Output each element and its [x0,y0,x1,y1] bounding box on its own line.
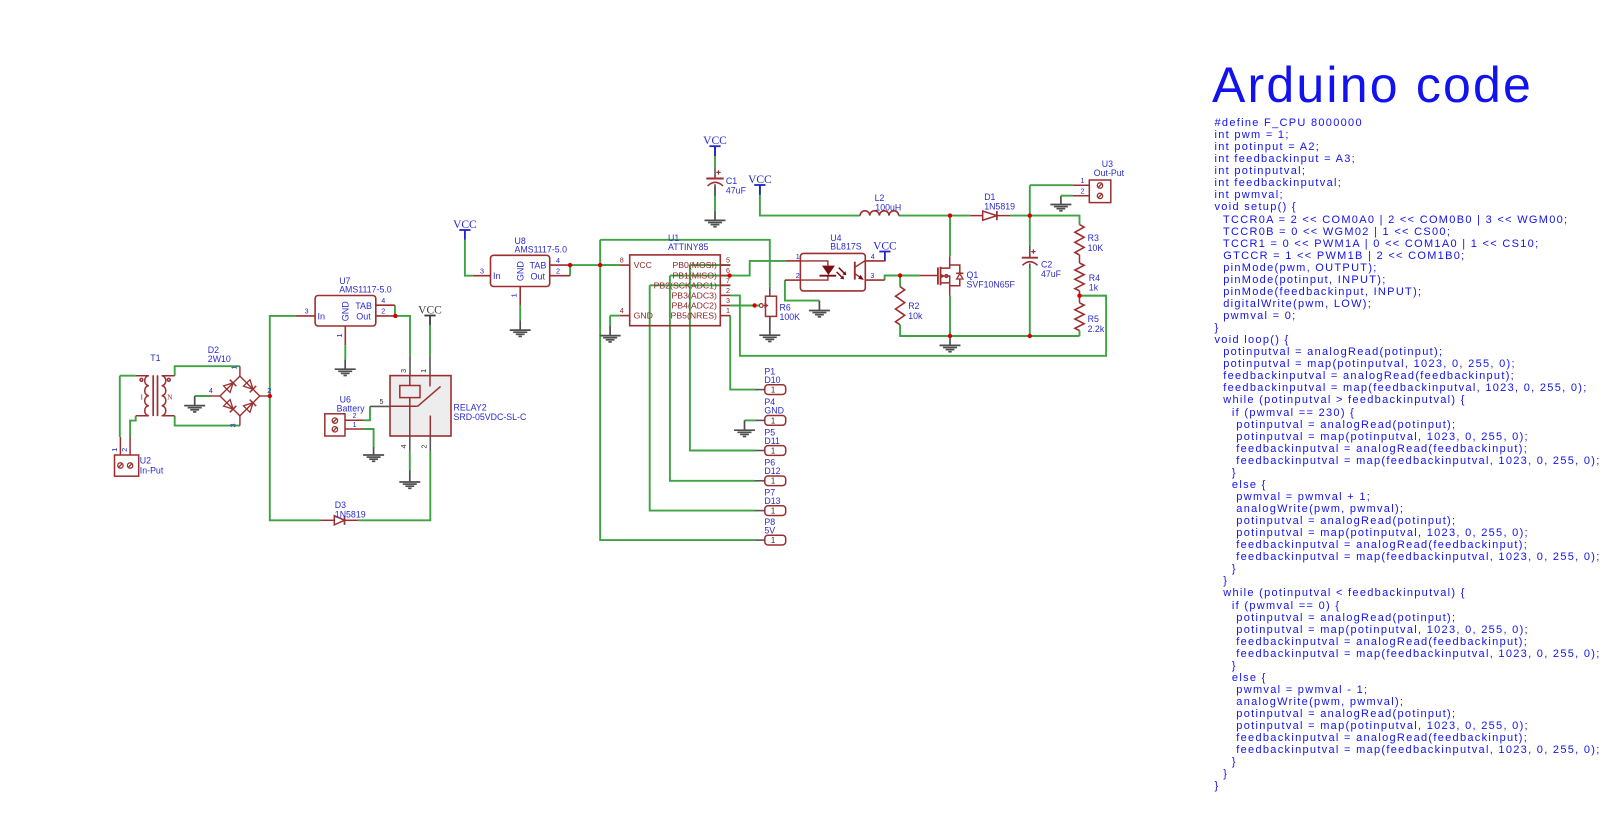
wire to U3 pin1 [1030,184,1073,186]
svg-text:PB1(MISO): PB1(MISO) [672,271,717,281]
svg-text:In: In [318,311,326,321]
svg-text:1: 1 [771,416,775,425]
svg-text:3: 3 [399,369,408,373]
ground at bridge pin4 [184,396,205,412]
ground bottom rail [940,338,961,352]
svg-text:D11: D11 [764,436,780,446]
svg-text:VCC: VCC [873,240,897,252]
wire U8 TAB to U1 VCC node [570,264,620,266]
svg-text:2: 2 [381,307,385,316]
svg-text:1: 1 [419,369,428,373]
junction R4/R5 divider [1077,294,1081,298]
junction D1/C2/U3 [1028,213,1032,217]
svg-text:VCC: VCC [703,135,727,147]
wire U3 pin2 stub [1061,195,1073,197]
wire 5V node to U1 pin8 [600,264,620,266]
junction bridge output [268,394,272,398]
wire VCC to L2 [760,185,860,216]
svg-text:2: 2 [796,271,800,280]
svg-text:100K: 100K [780,312,801,322]
transistor Q1 SVF10N65F [920,256,964,295]
wire P4 to ground [745,419,755,421]
svg-text:100uH: 100uH [875,202,901,212]
header P7 D13 [755,510,765,512]
wire PB1 down to P6 [670,276,755,481]
svg-text:2: 2 [120,448,129,452]
svg-text:VCC: VCC [453,219,477,231]
svg-text:5: 5 [726,256,730,265]
resistor R3 10K [1075,225,1084,255]
svg-text:1: 1 [771,477,775,486]
bridge diode BL [224,400,234,410]
svg-text:3: 3 [229,423,238,427]
ground C1 [705,211,726,227]
svg-text:In: In [493,271,501,281]
svg-text:2: 2 [1081,187,1085,196]
wire U8 TAB to Out [569,265,571,276]
svg-text:4: 4 [556,256,560,265]
svg-text:AMS1117-5.0: AMS1117-5.0 [339,285,392,295]
svg-text:R6: R6 [780,303,791,313]
svg-text:1k: 1k [1089,283,1099,293]
ground U1 GND [600,326,621,342]
wire 5V net down to P8 [600,240,755,540]
relay coil [390,376,441,436]
svg-text:1: 1 [771,507,775,516]
svg-text:TAB: TAB [530,261,547,271]
wire U3 pin2 down [1060,195,1062,198]
svg-text:R5: R5 [1088,314,1099,324]
svg-text:D12: D12 [764,466,780,476]
wire T1 secondary top to bridge pin1 [175,366,240,376]
diode D3 1N5819 [334,516,344,525]
svg-text:1: 1 [796,252,800,261]
svg-text:1: 1 [1081,176,1085,185]
wire VCC to U8 In [465,240,473,276]
wire relay pin4 to ground [409,451,411,470]
code listing [1215,117,1601,793]
U4 LED [800,261,828,280]
power symbol VCC (U8 input) [459,230,470,240]
svg-text:2: 2 [556,266,560,275]
wire PB1 through symbol [670,275,730,277]
connector U3 Out-Put [1073,180,1111,203]
wire PB5 down to P1 [730,316,755,390]
svg-text:2: 2 [726,286,730,295]
svg-text:D10: D10 [764,375,780,385]
svg-text:C2: C2 [1041,260,1052,270]
svg-text:1: 1 [726,306,730,315]
ground R6 [759,316,780,341]
bridge diode TR [244,380,254,390]
ground U3 pin2 [1050,197,1071,211]
wire VCC to relay pin1 [429,325,431,355]
wire U7 TAB to Out [394,305,396,316]
svg-text:Q1: Q1 [967,270,979,280]
wire PB2 down to P7 [650,285,755,510]
U4 light arrows [839,268,844,273]
ground U7 GND [335,359,356,375]
wire D1 cathode to R3 top [1010,216,1079,225]
wire gate node to R2 [899,276,901,287]
inductor L2 100uH [860,211,899,216]
svg-text:N: N [167,393,173,402]
junction 5V at U1 pin8 [598,263,602,267]
wire D1 node up/down to C2 top [1029,185,1031,246]
svg-text:2W10: 2W10 [208,354,231,364]
transformer T1 [136,375,175,416]
capacitor C2 47uF [1029,246,1031,268]
junction bottom rail C2 [1028,334,1032,338]
svg-text:1: 1 [771,446,775,455]
wire VCC to C1 plus [714,147,716,168]
svg-text:D1: D1 [984,192,995,202]
power symbol VCC (U4 pin4) [879,252,890,262]
wire PB0 through symbol [690,264,731,266]
svg-text:GND: GND [341,301,351,322]
svg-text:4: 4 [620,306,624,315]
svg-text:1: 1 [353,420,357,429]
regulator U7 AMS1117-5.0 [296,296,395,346]
power symbol VCC (C1) [709,146,720,156]
svg-text:VCC: VCC [634,260,652,270]
svg-text:U2: U2 [140,455,151,465]
svg-text:BL817S: BL817S [830,242,861,252]
wire PB4 to R6 wiper [730,305,759,307]
wire R2 bottom to rail [900,325,950,336]
wire 5V top rail to R6 [600,240,770,287]
wire C1 minus to ground [714,187,716,211]
svg-text:3: 3 [870,271,874,280]
header P6 D12 [755,480,765,482]
svg-text:1: 1 [229,366,238,370]
wire R5 bottom to rail [1079,331,1081,336]
svg-text:1: 1 [771,536,775,545]
svg-text:Out: Out [356,312,371,322]
svg-text:Battery: Battery [337,404,365,414]
svg-text:4: 4 [399,445,408,449]
wire Q1 source to rail [949,296,951,337]
svg-text:1N5819: 1N5819 [335,509,366,519]
wire bottom rail [950,335,1080,337]
title Arduino code [1212,56,1533,114]
svg-text:R4: R4 [1089,273,1100,283]
svg-text:PB5(NRES): PB5(NRES) [671,311,717,321]
svg-text:I: I [141,393,144,402]
wire U6 pin1 to ground [364,429,374,447]
resistor R2 10k [896,287,905,325]
power symbol VCC (L2 input) [754,185,765,195]
wire L2 to D1 anode [899,215,971,217]
wire U1 GND pin [610,315,620,317]
ground U6 pin1 [363,447,384,461]
relay RELAY2 SRD-05VDC-SL-C [390,376,451,436]
diode D1 1N5819 [983,211,997,220]
svg-text:1N5819: 1N5819 [984,202,1015,212]
svg-text:GND: GND [764,406,784,416]
svg-text:1: 1 [771,386,775,395]
wire PB3 feedback to R4/R5 node [730,295,1106,355]
junction L2/D1/Q1 drain [948,213,952,217]
wire C2 bottom to rail [1029,268,1031,336]
wire PB2 through symbol [650,284,731,286]
svg-text:PB0(MOSI): PB0(MOSI) [672,260,717,270]
wire PB1 to U4 pin1 [730,261,786,276]
bridge diode TL [224,383,234,393]
wire U4 pin3 to Q1 gate [885,276,920,281]
wire U4 pin2 to ground [785,280,820,301]
bridge diode BR [244,403,254,413]
wire R4/R5 tap (drawn with feedback wire) [1080,295,1107,297]
svg-text:Out-Put: Out-Put [1094,168,1125,178]
wire D3 cathode to relay pin2 [358,451,430,520]
svg-text:PB2(SCKADC1): PB2(SCKADC1) [654,280,717,290]
svg-text:TAB: TAB [355,301,372,311]
potentiometer R6 100K [769,287,771,335]
wire U2.1 to T1 primary top [120,375,136,377]
svg-text:SVF10N65F: SVF10N65F [967,280,1016,290]
svg-text:1: 1 [510,293,519,297]
junction bottom rail Q1 source [948,334,952,338]
wire U6 pin2 to relay pin5 [364,406,370,420]
wire U7 Out to relay pin3 [395,316,410,356]
svg-text:In-Put: In-Put [140,465,164,475]
connector U2 In-Put [115,437,139,476]
power symbol VCC (relay coil) [424,316,435,326]
svg-text:C1: C1 [726,176,737,186]
svg-text:3: 3 [305,307,309,316]
svg-text:2: 2 [267,386,271,395]
svg-text:Out: Out [531,271,546,281]
svg-text:8: 8 [620,256,624,265]
U4 phototransistor [854,262,856,280]
wire bridge out down to D3 anode [270,396,321,520]
svg-text:GND: GND [634,311,653,321]
svg-text:4: 4 [381,296,385,305]
junction U7 Out [393,314,397,318]
junction PB1 [727,273,731,277]
svg-text:ATTINY85: ATTINY85 [668,242,709,252]
svg-text:47uF: 47uF [1041,269,1062,279]
svg-text:VCC: VCC [418,304,442,316]
svg-text:D13: D13 [764,496,780,506]
svg-text:D3: D3 [335,500,346,510]
wire bridge pin4 to ground [195,395,211,397]
junction Q1 gate [898,273,902,277]
junction PB4 wiper [752,303,756,307]
ground P4 [734,420,755,436]
wire node to Q1 drain [949,216,951,257]
regulator U8 AMS1117-5.0 [473,255,570,305]
wire U8 GND to ground [519,305,521,320]
wire down to U2 pin1 [119,376,121,437]
svg-text:10k: 10k [908,311,923,321]
svg-text:1: 1 [335,334,344,338]
svg-text:GND: GND [516,261,526,282]
resistor R5 2.2k [1075,303,1084,331]
svg-text:R3: R3 [1088,233,1099,243]
wire PB0 down to P5 [690,265,755,450]
svg-text:T1: T1 [150,353,160,363]
svg-text:3: 3 [480,266,484,275]
svg-text:RELAY2: RELAY2 [454,402,487,412]
svg-text:5V: 5V [764,525,775,535]
svg-text:VCC: VCC [748,174,772,186]
wire T1 primary bottom to U2 pin2 [130,416,136,437]
capacitor C1 47uF [714,168,716,197]
ground U4 pin2 [809,301,830,317]
svg-text:PB3(ADC3): PB3(ADC3) [672,291,717,301]
ground relay pin4 [399,471,420,489]
resistor R4 1k [1075,263,1084,291]
svg-text:AMS1117-5.0: AMS1117-5.0 [515,244,568,254]
svg-text:10K: 10K [1088,243,1104,253]
svg-text:2: 2 [420,445,429,449]
optocoupler U4 BL817S [785,253,885,291]
svg-text:R2: R2 [908,301,919,311]
wire bridge out up to U7 In [270,316,296,396]
header P8 5V [755,539,765,541]
svg-text:47uF: 47uF [726,186,747,196]
svg-text:5: 5 [380,397,384,406]
svg-text:3: 3 [726,296,730,305]
connector U6 Battery [325,414,364,436]
MCU U1 ATTINY85 [620,255,731,326]
header P4 GND [755,419,765,421]
bridge rectifier D2 2W10 [210,366,269,425]
wire T1 secondary bottom to bridge pin3 [175,416,240,426]
wire U1 GND down [609,316,611,326]
junction U8 TAB/Out [568,263,572,267]
header P5 D11 [755,450,765,452]
header P1 D10 [755,389,765,391]
ground U8 GND [510,320,531,336]
svg-text:PB4(ADC2): PB4(ADC2) [672,301,717,311]
svg-text:4: 4 [871,252,875,261]
svg-text:SRD-05VDC-SL-C: SRD-05VDC-SL-C [454,412,527,422]
svg-text:1: 1 [110,448,119,452]
svg-text:4: 4 [209,386,213,395]
svg-text:2.2k: 2.2k [1088,324,1105,334]
